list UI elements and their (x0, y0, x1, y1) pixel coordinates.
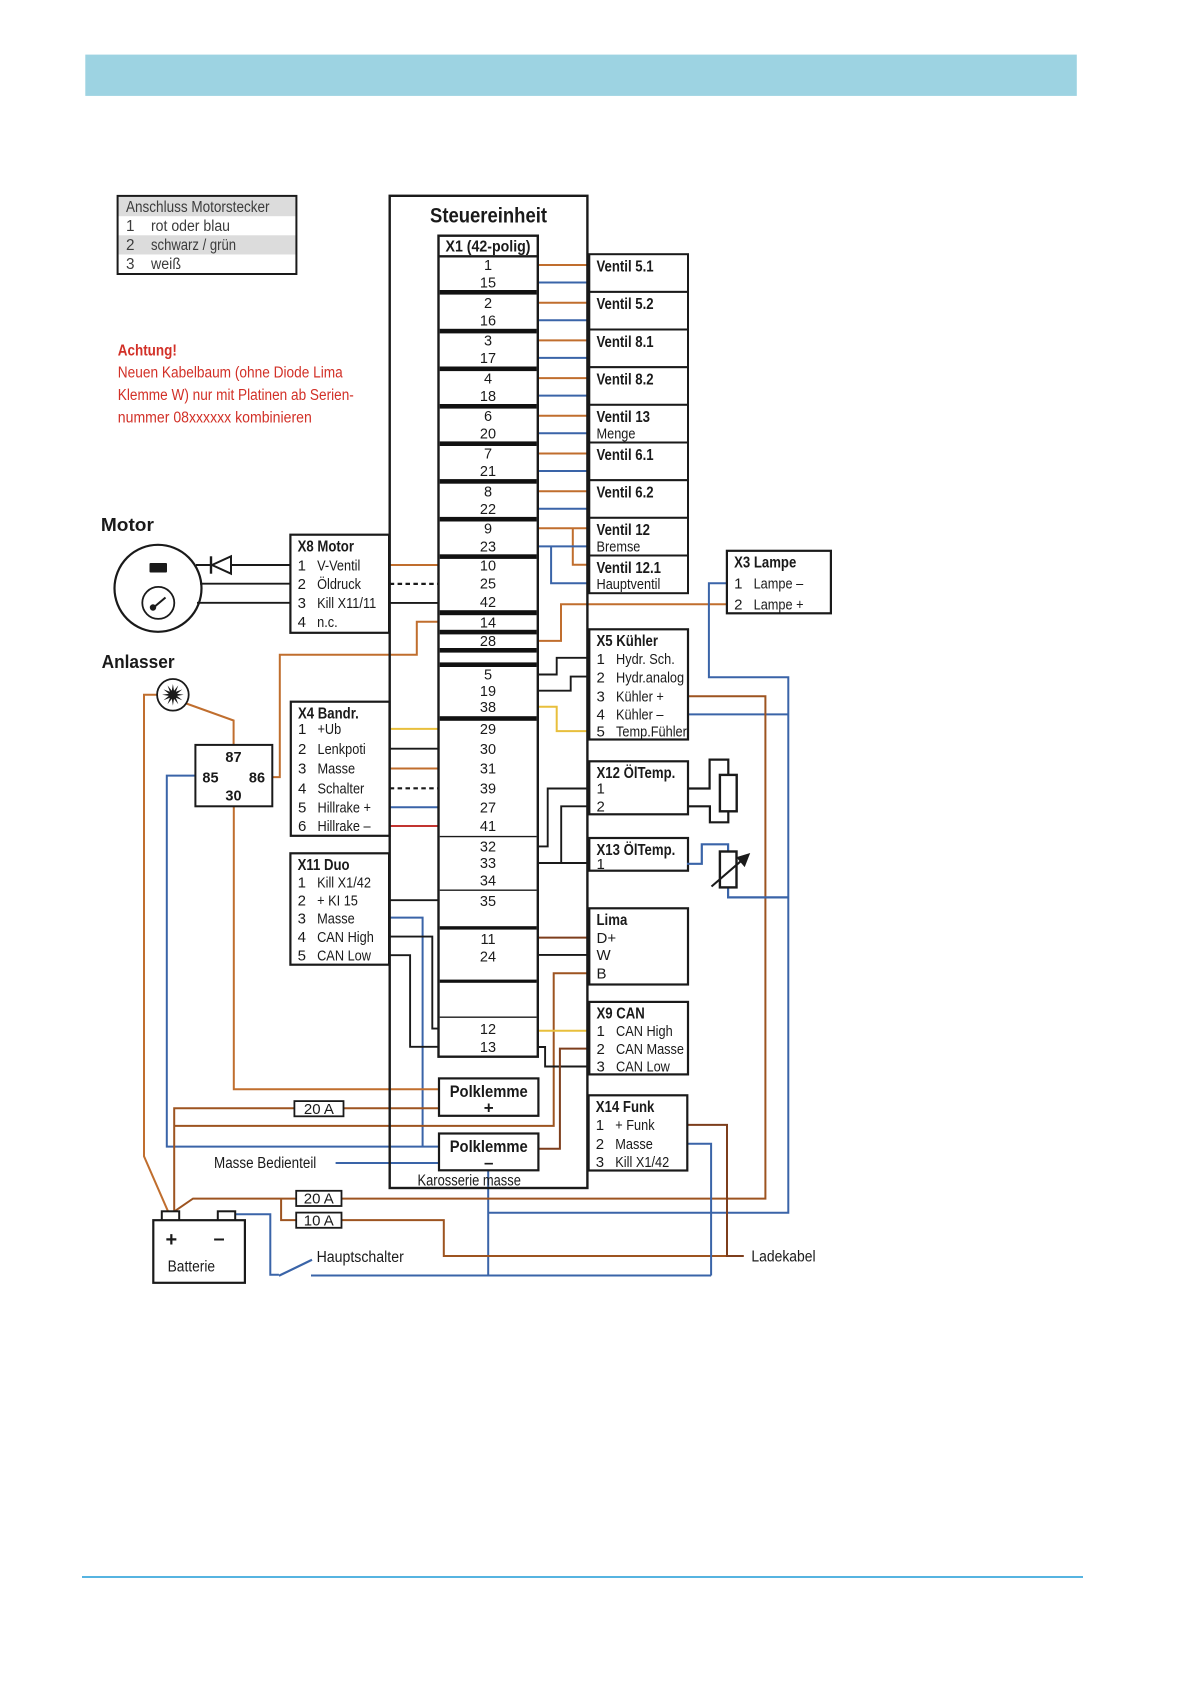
connector Lima (589, 908, 688, 984)
svg-text:–: – (214, 1228, 225, 1250)
svg-text:13: 13 (480, 1040, 496, 1056)
svg-text:Klemme W) nur mit Platinen ab: Klemme W) nur mit Platinen ab Serien- (118, 387, 354, 404)
svg-text:21: 21 (480, 464, 496, 480)
svg-text:5: 5 (597, 723, 605, 740)
svg-text:1: 1 (484, 258, 492, 274)
svg-text:n.c.: n.c. (317, 614, 338, 631)
wire X1 pin to Ventil 8.1 (-) (537, 357, 589, 359)
svg-text:CAN High: CAN High (317, 929, 374, 946)
motor symbol (115, 545, 202, 632)
fuse 10 A (296, 1212, 341, 1229)
svg-text:2: 2 (597, 1041, 605, 1058)
wire X4 pin3 Masse to X1 pin 31 (389, 768, 438, 770)
wire X14 pin2 Masse to Karosserie masse line (688, 1144, 711, 1276)
svg-text:Kill X1/42: Kill X1/42 (317, 875, 371, 892)
svg-text:Kühler –: Kühler – (616, 707, 664, 724)
svg-text:19: 19 (480, 684, 496, 700)
wire X1 pin 14 to relay terminal 86 (272, 622, 438, 777)
svg-text:2: 2 (298, 893, 306, 910)
wire X1 pin 11 to Lima D+ (537, 937, 589, 939)
svg-text:X9 CAN: X9 CAN (597, 1006, 645, 1023)
svg-text:31: 31 (480, 762, 496, 778)
svg-text:Anlasser: Anlasser (102, 652, 175, 672)
wire X1 pin to Ventil 6.2 (-) (537, 508, 589, 510)
valve box Ventil 8.1 (589, 330, 688, 368)
valve box Ventil 8.2 (589, 367, 688, 405)
svg-text:Hillrake +: Hillrake + (318, 800, 372, 817)
wire X4 pin6 Hillrake- to X1 pin 41 (389, 825, 438, 827)
svg-text:2: 2 (597, 799, 605, 816)
fuse 20 A (296, 1191, 341, 1208)
svg-text:Karosserie masse: Karosserie masse (418, 1173, 521, 1190)
svg-text:3: 3 (298, 761, 306, 778)
svg-text:weiß: weiß (150, 256, 181, 273)
svg-text:+: + (166, 1229, 178, 1251)
svg-text:39: 39 (480, 782, 496, 798)
svg-text:X13 ÖlTemp.: X13 ÖlTemp. (597, 842, 676, 859)
Steuereinheit box (390, 196, 588, 1188)
svg-text:V-Ventil: V-Ventil (317, 557, 360, 574)
svg-text:+Ub: +Ub (318, 721, 342, 738)
svg-text:1: 1 (597, 781, 605, 798)
wire branch pin 33 up to X12 pin 2 (561, 806, 588, 863)
svg-text:Ladekabel: Ladekabel (751, 1249, 815, 1266)
svg-text:Anschluss Motorstecker: Anschluss Motorstecker (126, 199, 270, 216)
wire X4 pin1 +Ub to X1 pin 29 (389, 728, 438, 730)
valve box Ventil 6.2 (589, 480, 688, 518)
svg-text:Masse: Masse (318, 761, 356, 778)
wire X11 pin4 CAN High to X1 pin 12 (389, 937, 438, 1029)
svg-text:Achtung!: Achtung! (118, 343, 177, 360)
svg-text:14: 14 (480, 615, 496, 631)
footer rule (82, 1576, 1083, 1578)
svg-text:2: 2 (298, 576, 306, 593)
wire X1 pin 24 to Lima W (537, 954, 589, 956)
wire X1 pin to Ventil 13 (+) (537, 415, 589, 417)
svg-text:schwarz / grün: schwarz / grün (151, 237, 236, 254)
wire Anlasser to relay 87 (184, 703, 234, 745)
svg-text:24: 24 (480, 950, 496, 966)
svg-text:Lenkpoti: Lenkpoti (318, 741, 366, 758)
svg-text:87: 87 (225, 750, 241, 766)
wire X4 pin4 Schalter to X1 pin 39 (dashed) (390, 787, 439, 789)
svg-text:Ventil 13: Ventil 13 (597, 409, 651, 426)
connector X8 Motor (290, 535, 389, 633)
wire X5 pin4 Kühler- to ground rail (688, 713, 788, 715)
wire X1 pin 12 to X9 CAN High (537, 1030, 589, 1032)
fuse 20 A (294, 1101, 343, 1118)
wire X4 pin5 Hillrake+ to X1 pin 27 (389, 806, 438, 808)
svg-text:1: 1 (126, 218, 135, 235)
svg-text:X5 Kühler: X5 Kühler (597, 633, 659, 650)
svg-text:CAN High: CAN High (616, 1023, 673, 1040)
svg-text:Ventil 8.2: Ventil 8.2 (597, 372, 654, 389)
wire X1 pin to Ventil 8.1 (+) (537, 339, 589, 341)
svg-text:Hillrake –: Hillrake – (318, 818, 372, 835)
svg-text:86: 86 (249, 770, 265, 786)
svg-text:Masse Bedienteil: Masse Bedienteil (214, 1155, 316, 1172)
svg-text:3: 3 (597, 689, 605, 706)
ground wire Polklemme minus to Karosserie masse rail (487, 1170, 489, 1275)
svg-text:X11 Duo: X11 Duo (298, 857, 350, 874)
svg-text:Ventil 8.1: Ventil 8.1 (597, 334, 654, 351)
wire 10A fuse branch to Ladekabel junction (281, 1199, 727, 1256)
wire X1 pin 33 to X13 pin 1 (537, 862, 588, 864)
svg-text:2: 2 (126, 237, 135, 254)
svg-text:1: 1 (298, 721, 306, 738)
svg-text:3: 3 (298, 911, 306, 928)
svg-text:8: 8 (484, 484, 492, 500)
wire X11 pin5 CAN Low to X1 pin 13 (389, 955, 438, 1047)
wire battery + via 20A fuse to Polklemme plus (174, 1108, 439, 1211)
svg-text:5: 5 (298, 800, 306, 817)
connector X4 Bandr. (291, 702, 390, 836)
svg-text:Masse: Masse (317, 911, 355, 928)
legend table Anschluss Motorstecker (118, 196, 297, 274)
valve box Ventil 5.1 (589, 254, 688, 292)
svg-text:1: 1 (597, 651, 605, 668)
svg-text:Masse: Masse (615, 1136, 653, 1153)
svg-text:CAN Masse: CAN Masse (616, 1041, 684, 1058)
relay 87/85/86/30 (195, 745, 272, 806)
wire X8 pin1 V-Ventil to X1 pin 10 (389, 564, 439, 566)
svg-text:41: 41 (480, 819, 496, 835)
svg-text:Steuereinheit: Steuereinheit (430, 204, 547, 228)
wire X1 pin to Ventil 8.2 (-) (537, 395, 589, 397)
svg-text:17: 17 (480, 351, 496, 367)
valve box Ventil 13 (589, 405, 688, 443)
svg-text:3: 3 (126, 256, 135, 273)
svg-text:1: 1 (597, 856, 605, 873)
svg-text:1: 1 (298, 557, 306, 574)
wire X1 pin 5 to X5 pin1 Hydr.Sch. (537, 658, 589, 675)
svg-text:Lampe +: Lampe + (754, 597, 804, 614)
battery Batterie (153, 1211, 245, 1282)
svg-text:20 A: 20 A (304, 1101, 334, 1118)
svg-text:5: 5 (484, 668, 492, 684)
wire X1 pin to Ventil 6.2 (+) (537, 490, 589, 492)
wire X1 pin to Ventil 5.1 (-) (537, 282, 589, 284)
svg-text:4: 4 (298, 614, 306, 631)
svg-text:CAN Low: CAN Low (317, 947, 371, 964)
svg-text:38: 38 (480, 700, 496, 716)
svg-text:20 A: 20 A (304, 1191, 334, 1208)
svg-text:+: + (484, 1099, 494, 1118)
connector X14 Funk (589, 1095, 688, 1171)
red warning note (118, 343, 354, 427)
wire X1 pin 38 to X5 pin5 Temp.Fühler (537, 707, 589, 731)
wire pin 9 to Ventil 12 and Ventil 12.1 (+) (537, 527, 589, 529)
svg-text:10: 10 (480, 559, 496, 575)
svg-text:11: 11 (480, 932, 495, 948)
svg-text:34: 34 (480, 874, 496, 890)
svg-text:Schalter: Schalter (318, 781, 365, 798)
wire battery - to Hauptschalter (235, 1214, 279, 1275)
wire X5 pin3 Kühler+ via 20A fuse to battery + (175, 696, 766, 1211)
valve box Ventil 12 (589, 518, 688, 556)
connector X12 ÖlTemp. (589, 761, 688, 815)
svg-text:nummer 08xxxxxx kombinieren: nummer 08xxxxxx kombinieren (118, 410, 312, 427)
svg-text:Hydr.analog: Hydr.analog (616, 670, 684, 687)
svg-text:7: 7 (484, 447, 492, 463)
connector X5 Kühler (589, 629, 688, 740)
svg-text:4: 4 (597, 707, 605, 724)
wire X1 pin to Ventil 6.1 (+) (537, 453, 589, 455)
connector X11 Duo (290, 853, 389, 964)
svg-text:10 A: 10 A (304, 1212, 334, 1229)
svg-text:5: 5 (298, 947, 306, 964)
wire X1 pin to Ventil 5.1 (+) (537, 264, 589, 266)
wire Anlasser to battery + (144, 695, 168, 1212)
svg-text:2: 2 (597, 670, 605, 687)
svg-text:3: 3 (597, 1059, 605, 1076)
svg-text:Kill X11/11: Kill X11/11 (317, 595, 376, 612)
svg-text:Neuen Kabelbaum (ohne Diode Li: Neuen Kabelbaum (ohne Diode Lima (118, 365, 343, 382)
svg-text:X1 (42-polig): X1 (42-polig) (446, 238, 531, 255)
svg-text:30: 30 (480, 742, 496, 758)
valve box Ventil 5.2 (589, 292, 688, 330)
svg-text:16: 16 (480, 313, 496, 329)
svg-text:Hauptschalter: Hauptschalter (317, 1249, 404, 1266)
diode on motor V-Ventil wire (211, 556, 231, 573)
wire motor to X8 pin3 (197, 602, 290, 604)
svg-text:42: 42 (480, 595, 496, 611)
header bar (85, 55, 1077, 96)
svg-text:D+: D+ (597, 930, 617, 947)
svg-text:Ventil 5.1: Ventil 5.1 (597, 259, 654, 276)
svg-text:X3 Lampe: X3 Lampe (734, 555, 797, 572)
svg-text:35: 35 (480, 894, 496, 910)
svg-text:Öldruck: Öldruck (317, 575, 361, 593)
thermistor at X13 (Öl temp sensor) (687, 844, 788, 897)
wire X1 pin to Ventil 6.1 (-) (537, 470, 589, 472)
wire X1 pin to Ventil 5.2 (-) (537, 319, 589, 321)
svg-text:27: 27 (480, 801, 496, 817)
svg-text:2: 2 (734, 597, 742, 614)
svg-text:Menge: Menge (597, 425, 636, 442)
svg-text:Lampe –: Lampe – (754, 576, 804, 593)
svg-text:+ KI 15: + KI 15 (317, 893, 358, 910)
svg-text:23: 23 (480, 540, 496, 556)
svg-text:2: 2 (484, 296, 492, 312)
svg-text:X14 Funk: X14 Funk (596, 1099, 655, 1116)
svg-text:4: 4 (298, 781, 306, 798)
svg-text:2: 2 (596, 1136, 604, 1153)
connector X3 Lampe (727, 551, 831, 614)
svg-text:25: 25 (480, 577, 496, 593)
svg-text:33: 33 (480, 856, 496, 872)
svg-text:Motor: Motor (101, 515, 154, 535)
svg-text:Ventil 12: Ventil 12 (597, 522, 651, 539)
svg-text:1: 1 (298, 875, 306, 892)
svg-text:Batterie: Batterie (168, 1259, 216, 1276)
svg-text:Ventil 6.1: Ventil 6.1 (597, 447, 654, 464)
svg-text:X8 Motor: X8 Motor (298, 539, 354, 556)
Karosserie masse ground line to X14 Masse riser (311, 1275, 711, 1277)
svg-text:4: 4 (298, 929, 306, 946)
valve box Ventil 6.1 (589, 443, 688, 481)
wire X1 pin 19 to X5 pin2 Hydr.analog (537, 677, 589, 691)
svg-text:32: 32 (480, 840, 496, 856)
svg-text:Ventil 6.2: Ventil 6.2 (597, 485, 654, 502)
ground wire X3 Lampe pin1 down the right rail to Karosserie masse (488, 583, 788, 1212)
wire X14 pin1 +Funk to Ladekabel junction (688, 1125, 744, 1256)
wire motor to X8 pin1 (196, 564, 290, 566)
wire pin 23 to Ventil 12 and Ventil 12.1 (-) (537, 545, 589, 547)
wire motor to X8 pin2 (200, 583, 290, 585)
svg-text:6: 6 (484, 409, 492, 425)
svg-text:9: 9 (484, 522, 492, 538)
svg-text:+ Funk: + Funk (615, 1117, 655, 1134)
svg-text:1: 1 (734, 576, 742, 593)
Hauptschalter switch blade (279, 1260, 312, 1276)
wire relay 85 to Polklemme minus (167, 776, 439, 1147)
svg-text:Ventil 5.2: Ventil 5.2 (597, 296, 654, 313)
wire X8 pin3 Kill X11/11 to X1 pin 42 (389, 602, 439, 604)
svg-text:Hydr. Sch.: Hydr. Sch. (616, 651, 675, 668)
svg-text:22: 22 (480, 502, 496, 518)
svg-text:–: – (484, 1153, 493, 1172)
svg-text:X12 ÖlTemp.: X12 ÖlTemp. (597, 765, 676, 782)
connector X13 ÖlTemp. (589, 838, 688, 873)
wire Masse Bedienteil to Polklemme minus (336, 1162, 439, 1164)
svg-text:Kill X1/42: Kill X1/42 (615, 1154, 669, 1171)
svg-text:20: 20 (480, 427, 496, 443)
svg-text:1: 1 (597, 1023, 605, 1040)
svg-text:18: 18 (480, 389, 496, 405)
svg-text:rot oder blau: rot oder blau (151, 218, 230, 235)
wire X9 CAN Masse to Polklemme minus (538, 1049, 589, 1149)
svg-text:Ventil 12.1: Ventil 12.1 (597, 560, 662, 577)
svg-text:Lima: Lima (597, 912, 628, 929)
svg-text:12: 12 (480, 1022, 496, 1038)
wire X1 pin to Ventil 8.2 (+) (537, 377, 589, 379)
wire X11 pin3 Masse down to Polklemme minus line (389, 918, 422, 1147)
wire X1 pin 28 to X3 Lampe pin 2 (537, 604, 727, 641)
wire X11 pin2 +KI15 to X1 pin 35 (389, 899, 438, 901)
terminal Polklemme + (439, 1078, 538, 1117)
svg-text:1: 1 (596, 1117, 604, 1134)
wire relay 30 to Polklemme plus (234, 806, 439, 1089)
starter symbol (157, 679, 189, 711)
svg-text:6: 6 (298, 818, 306, 835)
svg-text:4: 4 (484, 371, 492, 387)
wire X1 pin to Ventil 5.2 (+) (537, 302, 589, 304)
svg-text:X4 Bandr.: X4 Bandr. (298, 706, 359, 723)
svg-text:15: 15 (480, 276, 496, 292)
svg-text:CAN Low: CAN Low (616, 1059, 670, 1076)
svg-text:85: 85 (202, 770, 218, 786)
svg-text:30: 30 (225, 789, 241, 805)
valve box Ventil 12.1 (589, 556, 688, 594)
wire X1 pin 13 to X9 CAN Low (537, 1047, 589, 1067)
connector X1 (42-polig) (439, 236, 538, 1057)
wire X1 pin to Ventil 13 (-) (537, 432, 589, 434)
svg-text:2: 2 (298, 741, 306, 758)
svg-text:B: B (597, 966, 607, 983)
wire Lima B to battery + rail (174, 973, 589, 1126)
svg-text:Hauptventil: Hauptventil (597, 576, 661, 593)
wire X1 pin 32 to X12 pin 1 (537, 789, 588, 847)
svg-text:3: 3 (596, 1154, 604, 1171)
svg-text:W: W (597, 947, 612, 964)
resistor at X12 (Öl heater) (687, 760, 737, 823)
connector X9 CAN (589, 1002, 688, 1076)
svg-text:Bremse: Bremse (597, 538, 641, 555)
svg-text:Kühler +: Kühler + (616, 689, 664, 706)
wire X4 pin2 Lenkpoti to X1 pin 30 (389, 748, 438, 750)
svg-text:Temp.Fühler: Temp.Fühler (616, 723, 687, 740)
svg-text:29: 29 (480, 722, 496, 738)
svg-text:3: 3 (298, 595, 306, 612)
terminal Polklemme - (439, 1134, 538, 1172)
wire X8 pin2 Öldruck to X1 pin 25 (dashed) (390, 583, 439, 585)
svg-text:3: 3 (484, 334, 492, 350)
svg-text:28: 28 (480, 634, 496, 650)
